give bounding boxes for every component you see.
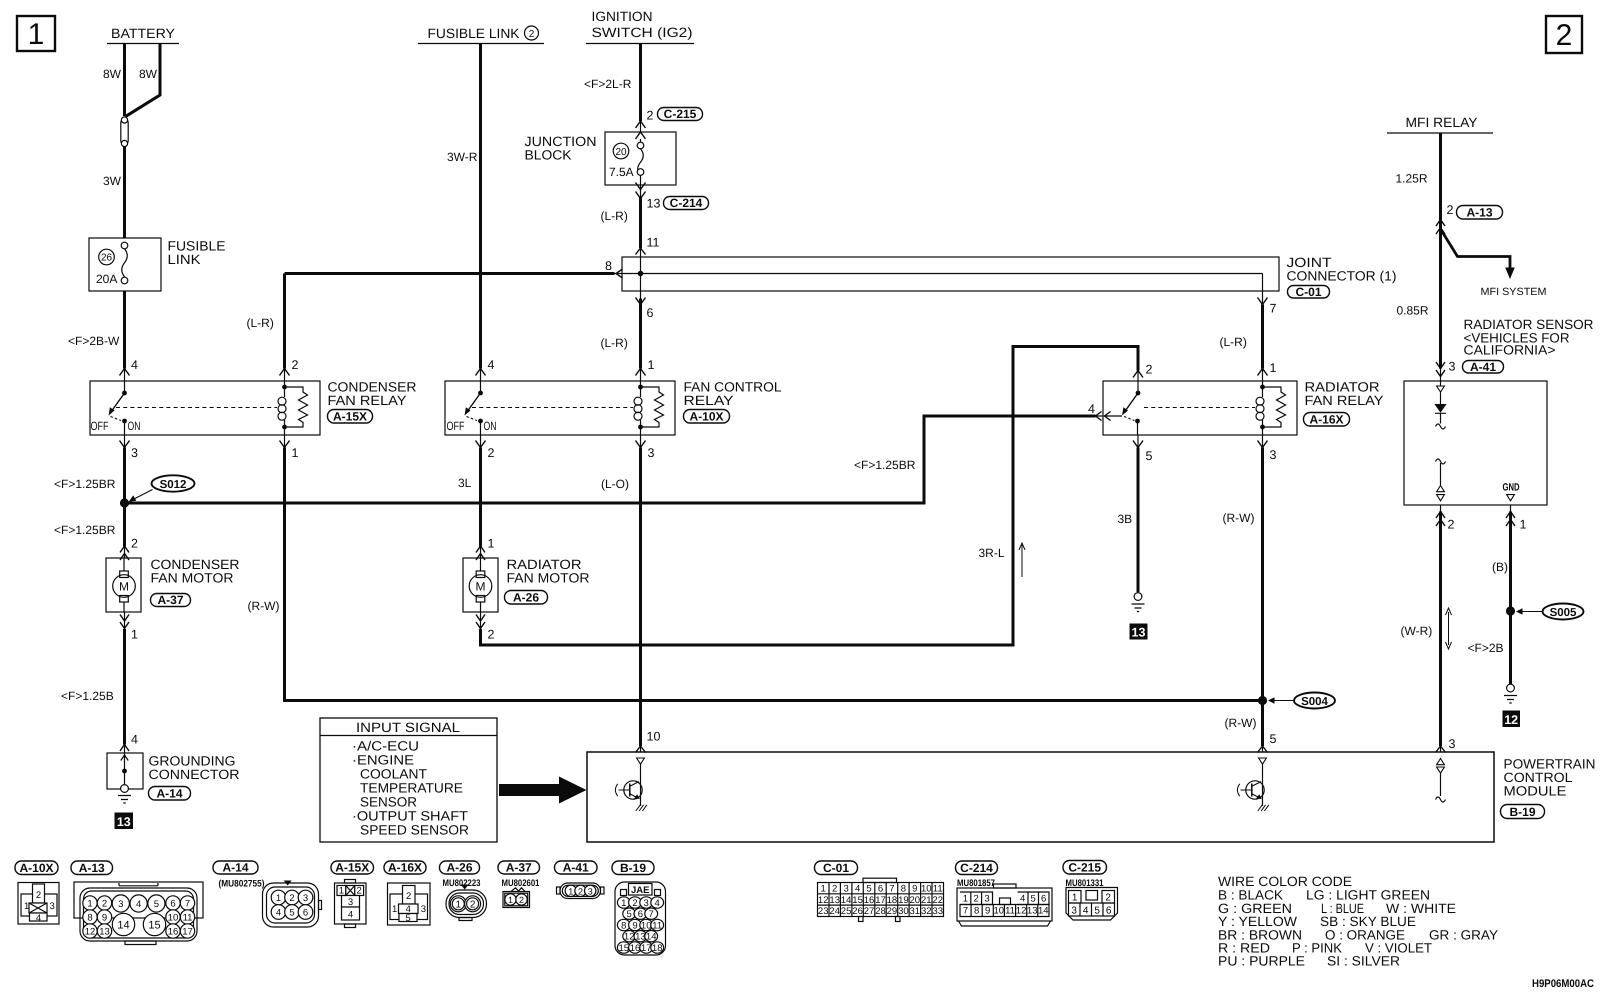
- svg-text:5: 5: [627, 909, 632, 920]
- svg-text:2: 2: [519, 895, 524, 905]
- svg-text:3: 3: [588, 886, 593, 896]
- svg-text:5: 5: [289, 908, 294, 919]
- svg-text:13: 13: [117, 815, 131, 829]
- ignition switch label: [586, 9, 694, 44]
- svg-text:1: 1: [821, 884, 826, 895]
- svg-text:<F>1.25BR: <F>1.25BR: [54, 477, 116, 491]
- condenser fan motor A-37 box: [106, 558, 141, 612]
- svg-text:25: 25: [841, 906, 852, 917]
- svg-text:A-15X: A-15X: [335, 861, 369, 875]
- pin 3 of B-19: [1436, 737, 1456, 753]
- svg-text:2: 2: [36, 890, 41, 901]
- pin 5 of A-16X: [1133, 441, 1153, 464]
- svg-text:2: 2: [488, 446, 495, 460]
- svg-text:LINK: LINK: [168, 252, 201, 267]
- input signal list: [352, 739, 469, 838]
- connector A-16X pinout: [388, 883, 431, 925]
- svg-text:CALIFORNIA>: CALIFORNIA>: [1464, 343, 1556, 358]
- wire R-W relay to PCM pin5: [1262, 435, 1264, 448]
- svg-text:6: 6: [638, 909, 643, 920]
- A-14 designator: [149, 787, 191, 801]
- PCM name: [1504, 757, 1596, 799]
- svg-text:4: 4: [131, 733, 138, 747]
- svg-text:6: 6: [647, 306, 654, 320]
- svg-text:OFF: OFF: [91, 419, 109, 433]
- fusible link name: [168, 239, 226, 268]
- pin 2 of A-10X: [476, 441, 495, 461]
- pin 2 of A-26: [476, 615, 495, 642]
- relay A-16X linkage dashed: [1144, 407, 1255, 409]
- connector A-26 pinout: [446, 885, 487, 921]
- connector B-19 pinout: [615, 882, 666, 955]
- svg-text:3W: 3W: [103, 174, 122, 188]
- svg-text:S004: S004: [1301, 696, 1328, 708]
- radiator fan motor A-26 box: [463, 558, 498, 612]
- connector A-10X pinout: [18, 883, 59, 925]
- pin 3 of A-41: [1436, 360, 1456, 377]
- svg-text:13: 13: [829, 895, 840, 906]
- pin 4 of A-14: [120, 733, 138, 752]
- svg-text:29: 29: [887, 906, 898, 917]
- svg-text:FAN MOTOR: FAN MOTOR: [151, 571, 234, 586]
- svg-text:1: 1: [131, 628, 138, 642]
- svg-text:10: 10: [647, 730, 661, 744]
- A-41 designator: [1463, 360, 1504, 374]
- splice S005 dot: [1506, 606, 1515, 615]
- splice S012 wire to radiator fan relay pin 4: [125, 416, 1096, 503]
- svg-text:2: 2: [632, 898, 637, 909]
- svg-text:10: 10: [641, 921, 652, 932]
- relay A-15X coil resistor: [285, 387, 308, 427]
- wire 8W right from battery: [126, 44, 161, 117]
- svg-text:FUSIBLE LINK: FUSIBLE LINK: [428, 26, 520, 41]
- svg-text:0.85R: 0.85R: [1397, 304, 1429, 318]
- C-215 designator: [658, 107, 703, 121]
- svg-text:13: 13: [635, 932, 646, 943]
- svg-text:1: 1: [28, 18, 45, 51]
- svg-text:23: 23: [818, 906, 829, 917]
- svg-text:3: 3: [50, 901, 55, 912]
- svg-text:1: 1: [1072, 893, 1078, 904]
- radiator fan relay name: [1305, 380, 1384, 409]
- svg-text:14: 14: [117, 920, 129, 932]
- C-214 designator: [664, 196, 709, 210]
- svg-text:16: 16: [168, 927, 179, 938]
- connector A-10X designator: [15, 861, 58, 875]
- svg-text:1: 1: [339, 886, 344, 897]
- svg-text:11: 11: [183, 913, 193, 924]
- svg-text:IGNITION: IGNITION: [592, 9, 653, 24]
- svg-text:A-13: A-13: [1466, 206, 1492, 220]
- pin 1 of A-26: [476, 537, 495, 561]
- svg-text:7: 7: [649, 909, 654, 920]
- GND label in sensor: [1503, 482, 1520, 501]
- svg-text:SENSOR: SENSOR: [360, 795, 417, 810]
- connector C-01 designator: [815, 861, 858, 875]
- svg-text:1: 1: [276, 893, 281, 904]
- svg-text:A-41: A-41: [563, 861, 589, 875]
- splice S012 callout: [129, 475, 195, 501]
- svg-text:33: 33: [932, 906, 943, 917]
- svg-text:6: 6: [170, 899, 175, 910]
- battery label: [107, 26, 179, 44]
- A-37 designator: [151, 593, 191, 607]
- svg-text:2: 2: [1146, 363, 1153, 377]
- svg-text:11: 11: [652, 921, 662, 932]
- svg-text:13: 13: [99, 927, 110, 938]
- svg-text:RELAY: RELAY: [684, 393, 734, 408]
- relay A-10X switch: [465, 381, 483, 435]
- svg-text:24: 24: [829, 906, 840, 917]
- pin 7 of C-01: [1258, 298, 1277, 316]
- svg-text:8: 8: [621, 921, 626, 932]
- junction block box: [605, 132, 676, 185]
- connector C-215 pinout: [1066, 888, 1118, 921]
- svg-text:·ENGINE: ·ENGINE: [352, 753, 414, 768]
- svg-text:3: 3: [843, 884, 848, 895]
- 3R-L direction arrow: [1019, 543, 1025, 577]
- radiator sensor name: [1464, 317, 1594, 358]
- svg-text:3: 3: [118, 899, 123, 910]
- connector A-26 designator: [440, 861, 481, 889]
- svg-text:COOLANT: COOLANT: [360, 767, 427, 782]
- fusible link 2 label: [418, 26, 544, 44]
- svg-text:9: 9: [102, 913, 107, 924]
- svg-text:2: 2: [102, 899, 107, 910]
- svg-text:TEMPERATURE: TEMPERATURE: [360, 781, 463, 796]
- connector A-13 pinout: [74, 882, 203, 945]
- joint connector C-01 box: [622, 257, 1279, 291]
- svg-text:1.25R: 1.25R: [1396, 172, 1428, 186]
- svg-text:7.5A: 7.5A: [609, 165, 634, 179]
- svg-text:5: 5: [866, 884, 871, 895]
- relay A-15X switch: [109, 381, 127, 435]
- circled 20: [613, 143, 629, 159]
- svg-text:4: 4: [136, 899, 141, 910]
- svg-text:20: 20: [615, 147, 627, 158]
- fusible link element symbol: [121, 117, 128, 147]
- svg-text:C-215: C-215: [664, 107, 697, 121]
- condenser fan relay A-15X box: [90, 381, 320, 435]
- splice S004 dot: [1258, 696, 1267, 705]
- svg-text:5: 5: [405, 913, 410, 924]
- svg-text:PU : PURPLE: PU : PURPLE: [1218, 954, 1305, 969]
- svg-text:3: 3: [131, 446, 138, 460]
- svg-text:MU802601: MU802601: [502, 878, 541, 889]
- svg-text:6: 6: [878, 884, 883, 895]
- svg-text:OFF: OFF: [447, 419, 465, 433]
- svg-text:BLOCK: BLOCK: [525, 148, 572, 163]
- svg-text:3B: 3B: [1118, 512, 1133, 526]
- pin 2 connector A-13: [1447, 203, 1454, 217]
- circled 26: [99, 249, 115, 265]
- pin 1 of A-37: [120, 615, 138, 642]
- svg-text:11: 11: [933, 884, 943, 895]
- svg-text:(L-R): (L-R): [1220, 335, 1247, 349]
- svg-text:3: 3: [984, 894, 989, 905]
- connector A-16X designator: [384, 861, 426, 875]
- svg-text:1: 1: [1270, 361, 1277, 375]
- svg-text:13: 13: [1132, 626, 1146, 640]
- svg-text:4: 4: [1088, 402, 1095, 416]
- fuse element 26: [121, 242, 128, 284]
- svg-text:B-19: B-19: [1509, 805, 1535, 819]
- svg-text:20A: 20A: [96, 272, 117, 286]
- svg-text:FAN RELAY: FAN RELAY: [1305, 393, 1384, 408]
- A-15X designator: [328, 410, 373, 424]
- svg-text:9: 9: [632, 921, 637, 932]
- svg-text:2: 2: [1447, 203, 1454, 217]
- input signal box: [320, 718, 497, 842]
- pin 6 of C-01: [636, 298, 654, 321]
- svg-text:1: 1: [392, 904, 397, 915]
- svg-text:18: 18: [652, 943, 663, 954]
- svg-text:10: 10: [921, 884, 932, 895]
- junction dot in C-01: [638, 271, 644, 277]
- pin 8 chevron: [605, 259, 623, 278]
- svg-text:16: 16: [630, 943, 641, 954]
- svg-text:13: 13: [1027, 906, 1038, 917]
- svg-text:2: 2: [578, 886, 583, 896]
- svg-text:3: 3: [644, 898, 649, 909]
- svg-text:A-37: A-37: [157, 593, 183, 607]
- svg-text:A-37: A-37: [506, 861, 532, 875]
- svg-text:4: 4: [1020, 894, 1025, 905]
- relay A-10X linkage dashed: [472, 407, 633, 409]
- svg-text:2: 2: [1448, 518, 1455, 532]
- svg-text:SI : SILVER: SI : SILVER: [1327, 954, 1400, 969]
- svg-text:4: 4: [855, 884, 860, 895]
- pin 4 of A-10X: [476, 358, 495, 376]
- svg-text:4: 4: [1083, 906, 1089, 917]
- connector A-37 pinout: [503, 888, 530, 908]
- wire L-R down to condenser relay pin 2: [283, 274, 286, 369]
- pin 13 connector C-214: [647, 197, 661, 211]
- svg-text:A-10X: A-10X: [19, 861, 53, 875]
- svg-text:(R-W): (R-W): [1225, 716, 1257, 730]
- svg-text:5: 5: [1094, 906, 1100, 917]
- pin 3 of A-10X: [636, 441, 655, 461]
- svg-text:11: 11: [647, 236, 660, 250]
- connector C-214 pinout: [957, 884, 1052, 926]
- svg-text:5: 5: [1146, 449, 1153, 463]
- svg-text:8: 8: [87, 913, 92, 924]
- svg-text:32: 32: [921, 906, 932, 917]
- svg-text:A-13: A-13: [79, 861, 105, 875]
- condenser fan motor name: [151, 557, 240, 586]
- svg-text:14: 14: [646, 932, 657, 943]
- ground symbol 12: [1504, 684, 1517, 703]
- connector A-14 designator: [213, 861, 265, 890]
- svg-text:9: 9: [912, 884, 917, 895]
- svg-text:6: 6: [1106, 906, 1112, 917]
- pin 4 of A-15X: [120, 358, 139, 376]
- wire color code legend: [1218, 874, 1498, 969]
- svg-text:22: 22: [932, 895, 943, 906]
- joint connector bus line: [622, 273, 1263, 275]
- motor symbol A-37: [113, 558, 136, 612]
- svg-text:1: 1: [456, 900, 462, 911]
- svg-text:9: 9: [985, 906, 990, 917]
- svg-text:FAN MOTOR: FAN MOTOR: [507, 571, 590, 586]
- svg-text:3W-R: 3W-R: [447, 150, 478, 164]
- svg-text:(L-O): (L-O): [601, 477, 629, 491]
- junction block exit chevrons: [636, 183, 646, 199]
- svg-text:2: 2: [974, 894, 979, 905]
- svg-text:10: 10: [168, 913, 179, 924]
- connector B-19 designator: [612, 861, 654, 875]
- wire 2B-W: [123, 291, 126, 369]
- svg-text:H9P06M00AC: H9P06M00AC: [1532, 978, 1594, 990]
- svg-text:10: 10: [994, 906, 1005, 917]
- wire 8W left from battery: [123, 44, 126, 117]
- sensor internals lower branch: [1436, 459, 1446, 501]
- A-10X designator: [684, 410, 730, 424]
- svg-text:(R-W): (R-W): [1223, 511, 1255, 525]
- svg-text:2: 2: [832, 884, 837, 895]
- svg-text:<F>1.25B: <F>1.25B: [61, 689, 114, 703]
- svg-text:8W: 8W: [139, 67, 158, 81]
- joint connector name: [1287, 255, 1397, 284]
- connector C-215 designator: [1063, 861, 1107, 890]
- svg-text:5: 5: [154, 899, 159, 910]
- wire W-R sensor to PCM: [1440, 505, 1442, 512]
- grounding connector internals: [118, 753, 131, 803]
- A-13 chevrons: [1436, 220, 1445, 235]
- fusible link 26 box: [89, 238, 161, 291]
- svg-text:1: 1: [508, 895, 513, 905]
- motor symbol A-26: [469, 558, 492, 612]
- splice S005 callout: [1516, 604, 1584, 620]
- svg-text:SWITCH (IG2): SWITCH (IG2): [592, 25, 693, 40]
- svg-text:8: 8: [901, 884, 906, 895]
- svg-text:A-14: A-14: [156, 787, 182, 801]
- powertrain control module box: [587, 752, 1494, 842]
- svg-text:(W-R): (W-R): [1401, 624, 1433, 638]
- svg-text:3: 3: [421, 904, 426, 915]
- wire L-R down to fan control relay: [640, 185, 642, 197]
- svg-text:(L-R): (L-R): [601, 209, 628, 223]
- svg-text:A-41: A-41: [1470, 360, 1496, 374]
- wire B sensor ground: [1510, 505, 1512, 512]
- branch wire to MFI system: [1441, 229, 1515, 279]
- svg-text:C-214: C-214: [670, 196, 703, 210]
- pin 1 of A-16X: [1258, 361, 1277, 376]
- sensor internals pin3 branch: [1434, 381, 1446, 429]
- svg-text:<F>2B-W: <F>2B-W: [68, 334, 120, 348]
- connector A-37 designator: [498, 861, 540, 889]
- svg-text:7: 7: [889, 884, 894, 895]
- svg-text:2: 2: [470, 900, 476, 911]
- svg-text:(L-R): (L-R): [247, 316, 274, 330]
- svg-text:ON: ON: [484, 419, 497, 433]
- svg-text:3R-L: 3R-L: [979, 546, 1005, 560]
- svg-text:30: 30: [898, 906, 909, 917]
- pin 1 of A-10X: [636, 358, 655, 376]
- svg-text:17: 17: [875, 895, 886, 906]
- svg-text:C-01: C-01: [823, 861, 849, 875]
- pin 1 of A-15X: [280, 441, 299, 461]
- connector A-14 pinout: [263, 881, 322, 928]
- grounding connector name: [149, 754, 240, 783]
- relay A-10X coil resistor: [641, 387, 664, 427]
- svg-text:FAN RELAY: FAN RELAY: [328, 393, 407, 408]
- svg-text:2: 2: [289, 893, 294, 904]
- svg-text:15: 15: [148, 920, 160, 932]
- wire 3R-L motor to radiator fan relay pin 2: [480, 612, 482, 629]
- pin 2 connector C-215: [636, 109, 654, 129]
- svg-text:2: 2: [131, 537, 138, 551]
- svg-text:INPUT SIGNAL: INPUT SIGNAL: [356, 720, 461, 735]
- page marker 2: [1546, 16, 1582, 53]
- relay A-16X coil resistor: [1263, 387, 1286, 427]
- svg-text:<F>2B: <F>2B: [1468, 641, 1504, 655]
- svg-text:1: 1: [621, 898, 626, 909]
- fan control relay name: [684, 380, 782, 409]
- svg-text:MU801857: MU801857: [957, 878, 995, 889]
- svg-text:4: 4: [131, 358, 138, 372]
- svg-text:3: 3: [1449, 737, 1456, 751]
- connector C-01 pinout: [818, 878, 944, 921]
- wire R-W long horizontal: [284, 435, 286, 448]
- svg-text:5: 5: [1031, 894, 1036, 905]
- svg-text:2: 2: [1105, 893, 1111, 904]
- svg-text:8: 8: [605, 259, 612, 273]
- svg-text:3L: 3L: [458, 476, 472, 490]
- junction block name: [525, 134, 597, 163]
- svg-text:A-16X: A-16X: [1309, 413, 1343, 427]
- svg-text:12: 12: [85, 927, 96, 938]
- pin 10 label: [636, 730, 661, 753]
- svg-text:CONNECTOR: CONNECTOR: [149, 767, 240, 782]
- relay A-10X coil: [634, 381, 643, 435]
- svg-text:2: 2: [529, 29, 535, 40]
- svg-text:7: 7: [185, 899, 190, 910]
- svg-text:15: 15: [619, 943, 630, 954]
- pin 2 of A-15X: [280, 358, 299, 376]
- svg-text:3: 3: [348, 897, 353, 908]
- svg-text:1: 1: [568, 886, 573, 896]
- svg-text:M: M: [476, 580, 486, 594]
- svg-text:4: 4: [276, 908, 281, 919]
- svg-text:4: 4: [488, 358, 495, 372]
- svg-text:4: 4: [36, 913, 41, 924]
- transistor Q2 (pin 5): [1237, 758, 1269, 811]
- svg-text:MU802223: MU802223: [443, 878, 481, 889]
- svg-text:2: 2: [1556, 19, 1573, 52]
- svg-text:(MU802755): (MU802755): [219, 879, 265, 890]
- pin 5 of B-19: [1258, 732, 1277, 753]
- svg-text:A-26: A-26: [446, 861, 472, 875]
- wire 8 into joint connector: [285, 272, 615, 275]
- svg-text:4: 4: [655, 898, 660, 909]
- wire 3L: [480, 435, 482, 448]
- svg-text:MODULE: MODULE: [1504, 784, 1567, 799]
- pin 10 of B-19 wire: [640, 435, 642, 448]
- connector C-214 designator: [956, 861, 998, 889]
- svg-text:14: 14: [1038, 906, 1049, 917]
- svg-text:17: 17: [182, 927, 193, 938]
- svg-text:1: 1: [292, 446, 299, 460]
- wire 1.25R: [1439, 133, 1442, 369]
- svg-text:14: 14: [841, 895, 852, 906]
- connector A-41 pinout: [557, 883, 605, 899]
- svg-text:4: 4: [348, 910, 353, 921]
- svg-text:MFI SYSTEM: MFI SYSTEM: [1481, 286, 1547, 298]
- A-13 designator: [1457, 206, 1503, 220]
- A-26 designator: [505, 591, 548, 605]
- MFI relay label: [1387, 115, 1493, 133]
